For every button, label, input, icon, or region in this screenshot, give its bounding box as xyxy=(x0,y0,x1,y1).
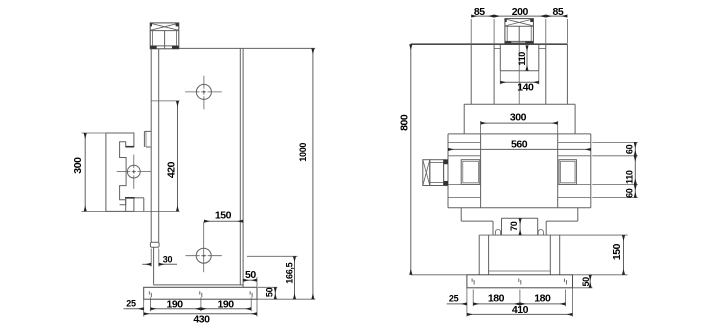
motor/bearing block (front view) xyxy=(505,19,534,44)
svg-text:190: 190 xyxy=(218,299,235,311)
dim 150 (right) xyxy=(623,235,625,275)
base bolt marks xyxy=(149,291,252,297)
bottom hole with crosshair xyxy=(186,222,222,273)
svg-text:190: 190 xyxy=(167,299,184,311)
svg-text:85: 85 xyxy=(474,6,485,18)
svg-text:1000: 1000 xyxy=(298,143,308,162)
upper tower (neck housing) xyxy=(471,44,567,104)
top stop block on rail xyxy=(144,131,151,147)
dim 110 (cavity) xyxy=(526,45,528,70)
base top/bottom extensions xyxy=(411,274,467,276)
dim 70 xyxy=(519,218,521,235)
dim 166,5 (hole to base bottom) xyxy=(247,256,298,299)
dim 50 (right base height) xyxy=(589,275,591,288)
svg-text:50: 50 xyxy=(245,269,256,281)
top plate line (with 800 extension to the left) xyxy=(411,43,568,45)
dim 50 (base height, right of base) xyxy=(257,287,315,299)
top chain 85/200/85 xyxy=(471,16,567,43)
carriage circle xyxy=(117,155,151,189)
svg-text:50: 50 xyxy=(581,277,591,287)
bottom stop block xyxy=(135,198,144,212)
dim 300 xyxy=(481,121,558,134)
dim 420 (travel) xyxy=(151,101,179,211)
dim 410 xyxy=(467,313,573,315)
under-saddle tier A xyxy=(461,208,578,221)
carriage plate (side view, with T-hooks) xyxy=(106,133,135,211)
bottom chain dims 25/190/190 xyxy=(124,298,258,317)
svg-text:300: 300 xyxy=(510,111,527,123)
base plate (right view) xyxy=(467,275,573,288)
dim 800 xyxy=(410,44,412,275)
dim 50 (column edge to base edge) xyxy=(243,277,257,287)
svg-text:200: 200 xyxy=(512,6,529,18)
base plate (left view) xyxy=(144,287,257,299)
svg-text:70: 70 xyxy=(509,221,519,231)
bearing block (top of column, side view) xyxy=(150,23,179,49)
side motor (left protrusion) xyxy=(423,160,448,186)
dim 560 xyxy=(448,148,591,150)
right chain 60/110/60 xyxy=(592,142,638,197)
svg-text:150: 150 xyxy=(611,243,623,260)
svg-text:180: 180 xyxy=(488,293,505,305)
svg-text:166,5: 166,5 xyxy=(285,262,295,283)
saddle row: outer 560 block xyxy=(448,134,591,208)
svg-text:560: 560 xyxy=(511,139,528,151)
column bottom edge xyxy=(154,284,244,286)
tier B with 70 cavity xyxy=(493,218,546,235)
bearing cavity xyxy=(500,45,539,71)
svg-text:150: 150 xyxy=(215,209,232,221)
bearing windows xyxy=(461,160,576,185)
svg-text:110: 110 xyxy=(517,52,527,66)
dim 150 (hole to edge) xyxy=(204,220,243,222)
dim 30 (rail thickness) xyxy=(142,249,177,267)
svg-text:85: 85 xyxy=(553,6,564,18)
svg-text:800: 800 xyxy=(399,114,411,131)
screw rail plate (front plate) xyxy=(150,49,159,248)
svg-text:420: 420 xyxy=(166,161,178,178)
svg-text:300: 300 xyxy=(72,157,84,174)
svg-text:25: 25 xyxy=(449,294,459,304)
dim 430 (base width) xyxy=(144,313,257,315)
lower column xyxy=(479,235,627,275)
head block xyxy=(464,104,575,134)
dim 140 xyxy=(500,71,539,85)
column front face below rail xyxy=(153,247,155,285)
svg-text:60: 60 xyxy=(624,188,634,198)
top hole with crosshair xyxy=(185,76,222,110)
dim 1000 (total height) xyxy=(312,48,314,299)
svg-text:430: 430 xyxy=(193,314,210,326)
svg-text:410: 410 xyxy=(512,304,529,316)
svg-text:50: 50 xyxy=(265,287,275,297)
column right edge (double) xyxy=(239,48,241,285)
svg-text:140: 140 xyxy=(517,81,534,93)
svg-text:180: 180 xyxy=(534,293,551,305)
svg-text:25: 25 xyxy=(126,298,136,308)
svg-text:60: 60 xyxy=(624,144,634,154)
svg-text:110: 110 xyxy=(624,170,634,184)
base bolt marks xyxy=(472,279,566,285)
svg-text:30: 30 xyxy=(163,255,173,265)
dim 300 (carriage height) xyxy=(82,133,180,211)
column top edge + extension to 1000 dim xyxy=(179,47,315,49)
bottom chain 25/180/180 xyxy=(447,288,573,317)
